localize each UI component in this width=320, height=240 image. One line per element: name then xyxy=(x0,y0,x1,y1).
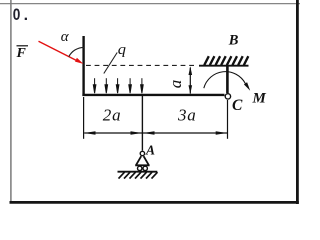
support A rollers xyxy=(138,166,142,170)
table cell bottom border xyxy=(10,201,299,204)
dimension line xyxy=(84,132,227,134)
svg-text:A: A xyxy=(145,143,155,158)
distributed load arrows xyxy=(93,78,143,93)
pin circle at A xyxy=(140,151,144,155)
wall hatching at B xyxy=(204,56,248,65)
svg-text:q: q xyxy=(118,42,127,58)
svg-text:a: a xyxy=(166,80,185,89)
angle alpha arc xyxy=(69,47,84,56)
extension line left xyxy=(83,97,85,139)
table cell right border xyxy=(296,0,299,204)
svg-text:M: M xyxy=(252,91,267,107)
wire: link B-C xyxy=(226,67,229,94)
svg-text:C: C xyxy=(232,97,243,114)
wall at B xyxy=(199,65,249,67)
pin circle at C xyxy=(225,94,230,99)
wire: left wall vertical line of frame xyxy=(82,36,84,96)
svg-text:0: 0 xyxy=(13,5,21,24)
dimension a vertical xyxy=(189,68,191,94)
svg-text:α: α xyxy=(61,29,70,45)
support A triangle xyxy=(135,156,149,165)
svg-text:.: . xyxy=(24,7,28,24)
table cell top border xyxy=(0,3,300,5)
wire: main beam xyxy=(82,94,224,96)
dimension arrowheads xyxy=(84,131,227,135)
svg-text:B: B xyxy=(228,33,239,49)
moment M arrowhead xyxy=(244,82,250,91)
ground hatching at A xyxy=(119,172,158,178)
svg-text:F: F xyxy=(16,46,27,61)
svg-text:3a: 3a xyxy=(177,106,197,125)
table cell left border xyxy=(10,0,12,203)
wire: link from beam down to support A xyxy=(141,96,143,151)
moment M arc xyxy=(204,72,246,89)
ground line at A xyxy=(118,171,158,173)
leader line for q xyxy=(104,53,117,74)
force F red vector xyxy=(39,41,78,61)
dashed reference line xyxy=(86,64,197,66)
svg-text:2a: 2a xyxy=(103,106,122,125)
extension line right (through C) xyxy=(227,100,229,139)
